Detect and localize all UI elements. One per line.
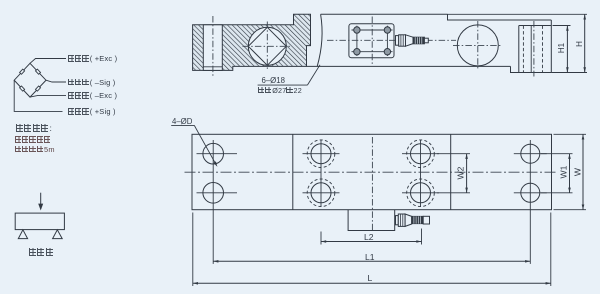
dimension L [193,282,551,284]
strain gauge R4 (bottom-left arm) [20,86,25,91]
bolt hole C2 counterbored (col 3 bottom) [411,183,431,203]
bolt hole D2 (right column bottom) [521,183,540,202]
dim text L [368,274,373,283]
label: standard length 5m note [15,146,55,154]
bolt hole B1 counterbored (col 2 top) [311,144,331,164]
dimension H1 [566,26,568,73]
wire to -Exc (black) [30,95,66,97]
dim text W (rotated) [573,168,582,176]
dim text W1 (rotated) [559,166,568,179]
leader line for 6-O18 counterbore note [258,84,308,86]
label: red input +Exc [68,55,118,63]
connector horizontal centerline [327,39,456,41]
plate vertical centerline [371,17,373,65]
label: wiring method heading [16,124,53,133]
bolt slot centerline [212,16,214,78]
junction box in plan view [348,210,395,231]
wire to +Sig (green) [14,80,62,111]
label: white output -Sig [68,79,116,87]
dimension W2 extension lines [437,153,470,155]
plan division line left [292,134,294,209]
left support triangle [18,230,27,239]
strain gauge R3 (bottom-right arm) [35,86,40,91]
spool inner step line [530,26,532,73]
load hole centerlines [453,44,503,46]
bolt hole C1 counterbored (col 3 top) [411,144,431,164]
bolt hole A1 (left column top) [203,143,224,164]
right support triangle [53,230,63,239]
right end vertical edge [550,20,552,73]
dimension L1 [213,260,530,262]
plan division line right [450,134,452,209]
dim text L1 [365,253,375,262]
shear web hole: circle with inscribed square [248,27,286,65]
plate bolt row lines [352,29,393,31]
bottom step and right end bottom with H extension [511,66,552,72]
left column vertical centerline / L1 extension [212,140,214,264]
wire to -Sig (white) [46,80,66,82]
note: 4-OD [172,118,192,126]
strain gauge bridge diamond [14,63,46,97]
bolt slot counterbore shelf [203,66,222,68]
dim text H (rotated) [575,41,583,47]
bottom edge of middle portion [307,65,511,67]
dimension L2 extension lines [320,232,322,245]
dim text W2 (rotated) [456,166,465,179]
dimension W extension lines [554,133,587,135]
cable gland connector in plan view [396,216,399,225]
note: counterbore O27 depth 22 [258,87,302,95]
wire to +Exc (red) [30,59,66,64]
spool centerline [533,21,535,77]
plate screw bottom-left [354,49,360,55]
label: force diagram caption [29,248,55,257]
side view: sectioned left body of load cell (hatched) [193,14,311,70]
strain gauge R2 (top-right arm) [35,69,40,74]
right column vertical centerline / L1 extension [529,140,531,264]
applied force arrow [40,193,42,205]
cable gland connector on plate [396,36,399,46]
dimension L2 [321,241,422,243]
dim text L2 [364,233,374,242]
dimension W2 [466,154,468,193]
junction box cover plate U1 on side of body [349,24,394,58]
dimension W [582,134,584,209]
dimension L extension lines [192,213,194,287]
plate screw top-left [354,27,360,33]
left mounting bolt slot (section) [203,25,222,71]
dimension W1 [569,154,571,193]
plan vertical centerline [371,137,373,233]
dim text H1 (rotated) [558,43,566,53]
top edge of middle portion and H extension line [321,13,448,15]
break line arc at right edge of section [317,14,322,66]
plan view outline of load cell [192,134,552,209]
beam body [15,213,64,230]
label: black input -Exc [68,92,118,100]
column 3 vertical line [420,140,422,208]
strain gauge R1 (top-left arm) [20,69,25,74]
spool hidden hole edges (dashed) [522,26,524,73]
load hole circle at right portion [457,25,498,66]
label: four-core cable note [15,136,52,144]
web hole centerlines [243,45,293,47]
dimension H1 extension line [553,25,571,27]
plan horizontal centerline [185,171,559,173]
dimension W1 extension lines [541,153,573,155]
leader line for 4-OD note with arrow [171,124,194,126]
bolt hole D1 (right column top) [521,144,540,163]
note: 6-O18 [262,77,285,85]
label: green output +Sig [68,108,116,116]
step down in top edge at right portion [448,14,552,20]
dimension H [584,14,586,72]
plate screw top-right [384,27,390,33]
bolt hole A2 (left column bottom) [203,183,224,204]
load spool at right end [519,25,552,27]
bolt hole B2 counterbored (col 2 bottom) [311,183,331,203]
column 2 vertical line [320,140,322,208]
plate screw bottom-right [384,49,390,55]
